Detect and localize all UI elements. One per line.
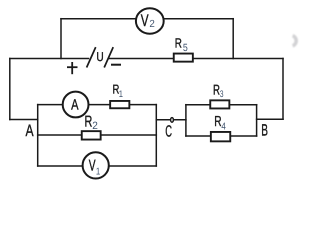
battery source U slash 1 [87, 47, 96, 67]
svg-text:2: 2 [149, 19, 155, 30]
wire main row left of battery [10, 58, 89, 60]
wire top branch [38, 104, 157, 106]
voltmeter V1 [83, 152, 109, 178]
svg-text:2: 2 [92, 120, 98, 132]
wire ladder left vertical [37, 105, 39, 166]
wire R4 branch [186, 135, 257, 137]
wire right-top vertical [232, 19, 234, 59]
resistor R2 [82, 131, 101, 139]
battery source U slash 2 [104, 47, 113, 67]
svg-text:1: 1 [96, 166, 101, 177]
battery plus sign [67, 62, 78, 74]
wire node B tap [257, 118, 283, 120]
svg-text:5: 5 [183, 42, 188, 54]
svg-text:R: R [85, 113, 93, 130]
voltmeter V2 [136, 8, 164, 33]
battery minus sign [111, 64, 121, 66]
wire top horizontal [61, 18, 233, 20]
wire R2 branch [38, 134, 157, 136]
wire R3R4 left vertical [185, 105, 187, 136]
resistor R1 [110, 101, 129, 108]
wire node C tap [156, 119, 186, 121]
svg-text:A: A [71, 97, 79, 113]
resistor R5 [174, 54, 193, 62]
wire node A tap [10, 119, 38, 121]
svg-text:1: 1 [119, 89, 123, 100]
svg-text:V: V [141, 11, 149, 30]
svg-text:C: C [165, 123, 172, 141]
svg-text:R: R [213, 81, 220, 97]
node C terminal dot [171, 118, 174, 123]
svg-text:A: A [26, 121, 35, 140]
wire R3R4 right vertical [256, 105, 258, 136]
svg-text:4: 4 [221, 121, 226, 132]
ammeter A [63, 92, 89, 118]
resistor R4 [211, 132, 230, 141]
svg-text:V: V [89, 158, 96, 175]
wire ladder right vertical [155, 105, 157, 166]
svg-text:R: R [214, 114, 221, 130]
svg-text:3: 3 [220, 89, 224, 100]
wire V1 branch [38, 165, 157, 167]
resistor R3 [210, 100, 229, 108]
wire main row right of battery [109, 58, 283, 60]
wire left outer vertical [9, 59, 11, 120]
wire right outer vertical [282, 59, 284, 120]
wire left-top vertical [60, 19, 62, 59]
svg-text:R: R [175, 35, 182, 50]
wire R3 branch [186, 104, 257, 106]
svg-text:U: U [96, 49, 103, 64]
svg-text:B: B [261, 122, 268, 140]
